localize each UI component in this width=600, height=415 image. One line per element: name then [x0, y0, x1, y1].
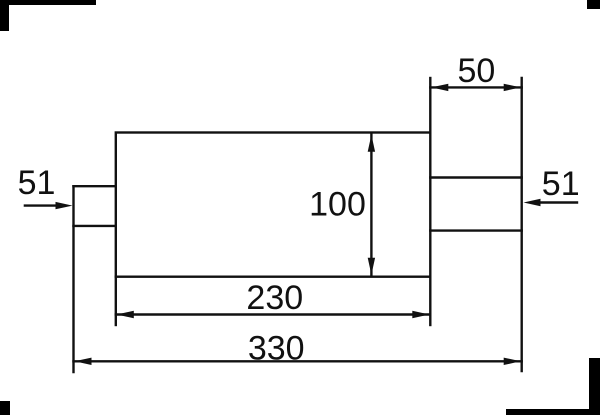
- svg-text:100: 100: [309, 186, 366, 224]
- 330 dimension line: [74, 360, 522, 362]
- arrowhead right 51 leader: [524, 199, 541, 206]
- right 51 leader shaft: [539, 201, 577, 203]
- arrowhead 230 left: [117, 311, 134, 318]
- edge artifact top-right square: [587, 0, 600, 9]
- edge artifact bottom-right horizontal: [506, 409, 600, 415]
- left inlet pipe top wall: [74, 185, 116, 187]
- right pipe end cap + 50/330 extension line: [521, 78, 523, 371]
- edge artifact bottom-right vertical: [589, 358, 600, 415]
- svg-text:51: 51: [18, 164, 56, 202]
- arrowhead 50 right: [504, 84, 521, 91]
- edge artifact bottom-left square: [0, 401, 10, 415]
- edge artifact top-left horizontal: [0, 0, 96, 5]
- arrowhead 330 right: [504, 358, 521, 365]
- arrowhead 330 left: [75, 358, 92, 365]
- edge artifact top-left vertical: [0, 0, 9, 31]
- left inlet pipe bottom wall: [74, 225, 116, 227]
- left 51 leader shaft: [25, 204, 58, 206]
- arrowhead 230 right: [412, 311, 429, 318]
- svg-text:51: 51: [542, 165, 580, 203]
- arrowhead left 51 leader: [56, 202, 73, 209]
- arrowhead 100 top: [368, 135, 375, 152]
- 50 dimension line: [430, 86, 521, 88]
- body left edge extension down for 230 dim: [115, 277, 117, 325]
- right outlet pipe top wall: [430, 176, 521, 178]
- svg-text:230: 230: [246, 279, 303, 317]
- body right edge extension up for 50 dim: [429, 78, 431, 133]
- 100 dimension line: [370, 134, 372, 276]
- svg-text:330: 330: [248, 330, 305, 368]
- body right edge extension down for 230 dim: [429, 277, 431, 325]
- muffler body rectangle: [116, 133, 431, 277]
- arrowhead 100 bottom: [368, 258, 375, 275]
- right outlet pipe bottom wall: [430, 229, 521, 231]
- svg-text:50: 50: [457, 52, 495, 90]
- arrowhead 50 left: [431, 84, 448, 91]
- 230 dimension line: [116, 313, 431, 315]
- left pipe end cap + 330 extension line: [72, 186, 74, 372]
